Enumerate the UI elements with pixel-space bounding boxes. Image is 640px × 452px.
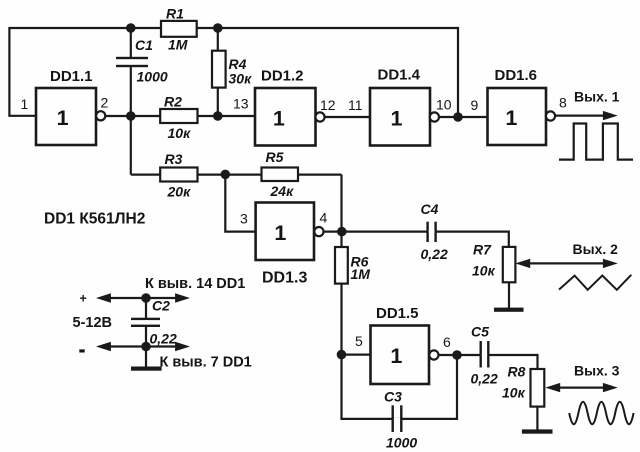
node junction DD1.1 out bbox=[126, 111, 136, 121]
capacitor C5 bbox=[471, 324, 498, 387]
wire DD1.4 output to DD1.6 input bbox=[439, 116, 488, 118]
svg-text:5: 5 bbox=[355, 333, 363, 349]
node junction R1/R4 top bbox=[213, 23, 223, 33]
svg-text:C5: C5 bbox=[471, 324, 489, 340]
node junction DD1.4 out / pin9 bbox=[453, 112, 463, 122]
output arrow Vyh2 (R7 wiper) bbox=[515, 241, 618, 268]
svg-text:5-12В: 5-12В bbox=[73, 315, 113, 331]
wire top feedback rail bbox=[9, 28, 458, 117]
svg-text:24к: 24к bbox=[270, 183, 295, 199]
svg-text:DD1.2: DD1.2 bbox=[261, 68, 304, 85]
svg-text:Вых. 1: Вых. 1 bbox=[574, 88, 620, 104]
square wave symbol bbox=[559, 124, 633, 160]
svg-text:DD1 К561ЛН2: DD1 К561ЛН2 bbox=[44, 211, 145, 228]
wire C4 to R7 top bbox=[436, 232, 509, 247]
wire vertical trunk C1/R2/R3 bbox=[130, 28, 132, 175]
svg-text:1: 1 bbox=[21, 96, 29, 112]
triangle wave symbol bbox=[559, 275, 631, 290]
svg-text:1: 1 bbox=[390, 344, 402, 368]
wire R8 bottom to ground bbox=[536, 407, 538, 431]
svg-text:R1: R1 bbox=[166, 6, 184, 22]
svg-text:R5: R5 bbox=[266, 149, 284, 165]
node junction power minus bbox=[141, 342, 151, 352]
wire R2 to DD1.2 input pin13 bbox=[197, 115, 255, 117]
inverter gate DD1.3 bbox=[240, 203, 328, 287]
wire C2 vertical bbox=[145, 298, 147, 367]
svg-text:10: 10 bbox=[436, 97, 452, 113]
svg-text:C2: C2 bbox=[152, 298, 170, 314]
svg-text:30к: 30к bbox=[229, 71, 253, 87]
capacitor C2 bbox=[131, 298, 177, 347]
svg-text:1000: 1000 bbox=[386, 435, 417, 451]
node junction DD1.5 out / C5 / C3 bbox=[452, 350, 462, 360]
svg-text:10к: 10к bbox=[472, 263, 496, 279]
resistor R5 bbox=[262, 149, 299, 199]
capacitor C4 bbox=[421, 201, 448, 262]
svg-text:6: 6 bbox=[443, 334, 451, 350]
svg-text:12: 12 bbox=[320, 97, 336, 113]
svg-text:4: 4 bbox=[320, 210, 328, 226]
wire R3/R5 junction down to DD1.3 pin3 bbox=[225, 175, 255, 232]
svg-text:1М: 1М bbox=[168, 37, 188, 53]
wire R6 vertical branch bbox=[340, 232, 342, 355]
svg-text:8: 8 bbox=[559, 95, 567, 111]
ground under R7 bbox=[494, 308, 524, 312]
svg-text:DD1.1: DD1.1 bbox=[50, 68, 93, 85]
wire R3 row bbox=[131, 174, 342, 176]
inverter gate DD1.4 bbox=[348, 67, 452, 146]
svg-text:1: 1 bbox=[274, 221, 286, 245]
resistor R3 bbox=[160, 151, 197, 200]
label minus bbox=[79, 349, 84, 352]
potentiometer R7 bbox=[472, 242, 515, 283]
svg-text:DD1.3: DD1.3 bbox=[262, 270, 307, 287]
resistor R4 bbox=[212, 51, 252, 88]
svg-text:20к: 20к bbox=[167, 184, 192, 200]
svg-text:1: 1 bbox=[505, 106, 517, 130]
wire R4 vertical branch bbox=[217, 28, 219, 116]
svg-text:1000: 1000 bbox=[137, 69, 168, 85]
svg-text:0,22: 0,22 bbox=[421, 246, 448, 262]
capacitor C3 bbox=[384, 389, 417, 451]
ground under C2 bbox=[131, 367, 162, 371]
ground under R8 bbox=[522, 429, 553, 433]
svg-text:10к: 10к bbox=[502, 385, 526, 401]
svg-text:13: 13 bbox=[233, 96, 249, 112]
svg-text:11: 11 bbox=[348, 97, 363, 113]
node junction power plus bbox=[141, 293, 151, 303]
node junction DD1.3 out / R6 / C4 bbox=[337, 227, 347, 237]
svg-text:1: 1 bbox=[273, 106, 285, 130]
power arrow plus rail bbox=[96, 293, 190, 302]
wire DD1.5 output to C5 bbox=[439, 354, 481, 356]
wire C3 loop bbox=[342, 355, 458, 419]
svg-text:+: + bbox=[80, 292, 87, 306]
wire DD1.1 output to R2 bbox=[105, 115, 161, 117]
svg-text:R3: R3 bbox=[165, 151, 183, 167]
wire R5 right to DD1.3 output node bbox=[340, 175, 342, 232]
svg-text:К выв. 7 DD1: К выв. 7 DD1 bbox=[160, 355, 252, 371]
inverter gate DD1.2 bbox=[233, 68, 336, 146]
potentiometer R8 bbox=[502, 364, 544, 407]
svg-text:R7: R7 bbox=[473, 242, 492, 258]
sine wave symbol bbox=[569, 402, 633, 425]
svg-text:DD1.5: DD1.5 bbox=[376, 305, 419, 322]
svg-text:3: 3 bbox=[240, 211, 248, 227]
node junction R3/R5 bbox=[221, 170, 231, 180]
wire R7 bottom to ground bbox=[508, 282, 510, 309]
svg-text:1: 1 bbox=[57, 106, 69, 130]
inverter gate DD1.6 bbox=[471, 67, 568, 145]
node junction DD1.5 pin5 / R6 / C3 bbox=[337, 350, 347, 360]
svg-text:1: 1 bbox=[391, 106, 403, 130]
svg-text:R8: R8 bbox=[508, 364, 526, 380]
wire DD1.5 pin5 bbox=[342, 354, 371, 356]
svg-text:0,22: 0,22 bbox=[150, 331, 177, 347]
svg-text:0,22: 0,22 bbox=[471, 371, 498, 387]
svg-text:1М: 1М bbox=[351, 266, 371, 282]
inverter gate DD1.5 bbox=[355, 305, 451, 384]
node junction R2/R4/pin13 bbox=[213, 111, 223, 121]
svg-text:R2: R2 bbox=[164, 94, 182, 110]
svg-text:DD1.4: DD1.4 bbox=[378, 67, 421, 84]
svg-text:C1: C1 bbox=[135, 37, 153, 53]
resistor R2 bbox=[160, 94, 197, 142]
output arrow Vyh1 bbox=[555, 88, 620, 120]
resistor R6 bbox=[335, 247, 370, 284]
svg-text:2: 2 bbox=[101, 95, 109, 111]
svg-text:Вых. 3: Вых. 3 bbox=[574, 363, 620, 379]
wire C5 to R8 top bbox=[489, 355, 538, 369]
svg-text:DD1.6: DD1.6 bbox=[495, 67, 538, 84]
svg-text:9: 9 bbox=[471, 97, 479, 113]
wire DD1.2 output to DD1.4 input bbox=[325, 116, 371, 118]
svg-text:Вых. 2: Вых. 2 bbox=[573, 241, 619, 257]
wire DD1.3 output to C4 bbox=[324, 231, 428, 233]
resistor R1 bbox=[161, 6, 197, 53]
power arrow minus rail bbox=[96, 342, 190, 351]
svg-text:10к: 10к bbox=[168, 125, 192, 141]
output arrow Vyh3 (R8 wiper) bbox=[545, 363, 619, 393]
svg-text:К выв. 14 DD1: К выв. 14 DD1 bbox=[145, 276, 245, 292]
capacitor C1 bbox=[116, 37, 168, 85]
inverter gate DD1.1 bbox=[21, 68, 109, 145]
node junction C1/R1 top bbox=[126, 23, 136, 33]
svg-text:C3: C3 bbox=[384, 389, 402, 405]
svg-text:C4: C4 bbox=[421, 201, 439, 217]
